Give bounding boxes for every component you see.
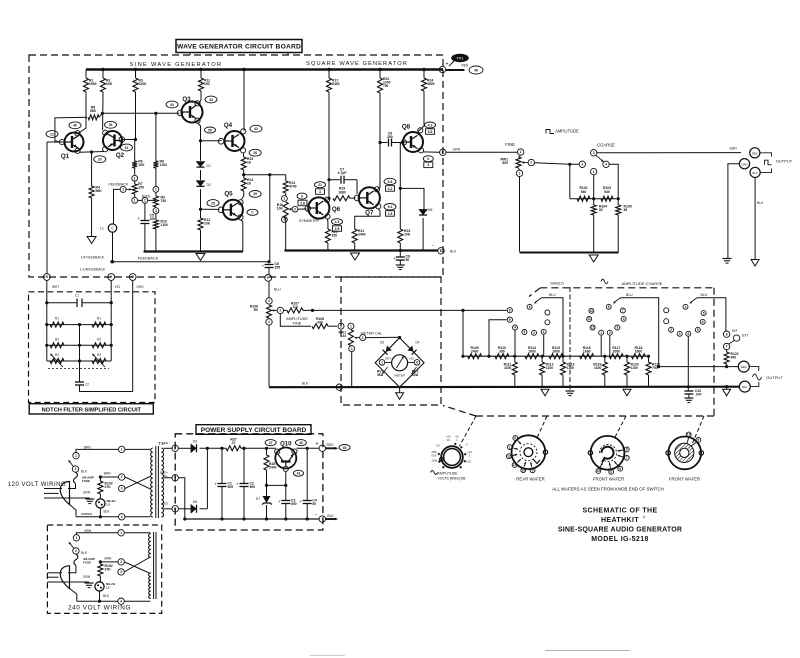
svg-text:3: 3 <box>593 151 595 155</box>
svg-text:10: 10 <box>597 469 601 473</box>
svg-text:4.2: 4.2 <box>388 187 393 191</box>
svg-text:−: − <box>315 512 318 518</box>
svg-text:100: 100 <box>150 217 156 221</box>
svg-text:12: 12 <box>507 454 511 458</box>
svg-text:43: 43 <box>170 103 174 107</box>
svg-text:50: 50 <box>208 128 212 132</box>
svg-text:-20B: -20B <box>431 459 437 463</box>
svg-text:F: F <box>267 276 269 280</box>
svg-text:2: 2 <box>279 309 281 313</box>
svg-text:RIBBED: RIBBED <box>81 512 93 516</box>
svg-text:9: 9 <box>532 469 534 473</box>
svg-text:SHIELD: SHIELD <box>550 282 564 286</box>
svg-text:2: 2 <box>75 549 77 553</box>
svg-text:AMPLITUDE: AMPLITUDE <box>286 317 308 321</box>
svg-text:Q8: Q8 <box>402 124 411 131</box>
svg-text:Q5: Q5 <box>224 191 233 198</box>
svg-text:2: 2 <box>362 336 364 340</box>
svg-text:BLK: BLK <box>81 551 88 555</box>
svg-text:1/4 FEEDBACK: 1/4 FEEDBACK <box>81 255 105 259</box>
svg-text:+: + <box>315 442 318 448</box>
svg-text:10: 10 <box>521 468 525 472</box>
svg-text:4.3: 4.3 <box>335 220 340 224</box>
svg-text:.1: .1 <box>455 438 458 442</box>
svg-text:ALL WAFERS AS SEEN FROM KNOB: ALL WAFERS AS SEEN FROM KNOB END OF SWIT… <box>552 487 664 492</box>
svg-text:2: 2 <box>530 161 532 165</box>
svg-text:4700: 4700 <box>289 185 297 189</box>
svg-text:C1: C1 <box>75 294 79 298</box>
svg-text:2400: 2400 <box>358 233 366 237</box>
svg-text:1: 1 <box>75 454 77 458</box>
svg-text:1600: 1600 <box>635 350 643 354</box>
svg-text:27K: 27K <box>105 568 112 572</box>
svg-text:EXT: EXT <box>742 334 749 338</box>
svg-text:600: 600 <box>502 161 508 165</box>
svg-text:TP1: TP1 <box>456 56 464 61</box>
svg-text:BLU: BLU <box>701 293 708 297</box>
svg-text:6: 6 <box>529 305 531 309</box>
svg-text:9: 9 <box>509 318 511 322</box>
svg-text:110: 110 <box>292 305 298 309</box>
svg-text:1: 1 <box>338 385 340 389</box>
svg-text:2: 2 <box>609 331 611 335</box>
svg-text:BLK: BLK <box>81 470 88 474</box>
svg-text:3: 3 <box>121 487 123 491</box>
svg-text:1: 1 <box>121 448 123 452</box>
svg-text:BLU: BLU <box>626 293 633 297</box>
svg-text:1-1/4FEEDBACK: 1-1/4FEEDBACK <box>80 268 106 272</box>
svg-text:SINE WAVE GENERATOR: SINE WAVE GENERATOR <box>130 62 223 68</box>
svg-text:4.3: 4.3 <box>428 123 433 127</box>
svg-text:10K: 10K <box>277 207 284 211</box>
svg-text:5: 5 <box>610 470 612 474</box>
svg-text:1100: 1100 <box>161 223 168 227</box>
svg-text:SCHEMATIC OF THE: SCHEMATIC OF THE <box>582 508 657 515</box>
svg-text:8: 8 <box>608 305 610 309</box>
svg-text:FRONT WAFER: FRONT WAFER <box>593 477 624 482</box>
svg-text:NOTCH FILTER SIMPLIFIED CIRCUI: NOTCH FILTER SIMPLIFIED CIRCUIT <box>42 407 142 413</box>
svg-text:FUSE: FUSE <box>83 561 91 565</box>
svg-text:10K: 10K <box>404 233 411 237</box>
svg-text:3.8: 3.8 <box>428 130 433 134</box>
svg-text:Q2: Q2 <box>116 152 125 159</box>
svg-text:6: 6 <box>619 467 621 471</box>
svg-text:.003: .003 <box>431 454 437 458</box>
svg-text:1100: 1100 <box>160 163 167 167</box>
svg-text:1: 1 <box>134 199 136 203</box>
svg-text:2: 2 <box>121 475 123 479</box>
svg-text:150: 150 <box>332 234 338 238</box>
svg-text:.047: .047 <box>695 393 702 397</box>
svg-text:1: 1 <box>134 176 136 180</box>
svg-text:1600: 1600 <box>583 350 591 354</box>
svg-text:500: 500 <box>250 485 256 489</box>
svg-text:VIO: VIO <box>409 357 415 361</box>
svg-text:3: 3 <box>155 209 157 213</box>
svg-text:56K: 56K <box>96 189 103 193</box>
svg-text:730: 730 <box>161 199 167 203</box>
svg-text:YEL: YEL <box>115 285 121 289</box>
svg-text:1: 1 <box>593 170 595 174</box>
svg-text:BLK: BLK <box>104 510 111 514</box>
svg-text:1: 1 <box>120 531 122 535</box>
svg-text:+: + <box>393 256 396 261</box>
svg-text:GRY: GRY <box>385 357 391 361</box>
svg-text:41: 41 <box>297 472 301 476</box>
svg-text:E: E <box>440 249 442 253</box>
svg-text:METER: METER <box>394 374 405 378</box>
svg-text:26: 26 <box>253 151 257 155</box>
svg-text:WHT: WHT <box>52 285 59 289</box>
svg-text:1100: 1100 <box>546 366 553 370</box>
svg-text:6: 6 <box>416 361 418 365</box>
svg-text:1: 1 <box>509 445 511 449</box>
svg-text:255: 255 <box>275 266 281 270</box>
svg-text:1680: 1680 <box>338 190 346 194</box>
svg-text:12: 12 <box>591 326 595 330</box>
svg-text:WAVE GENERATOR CIRCUIT BOARD: WAVE GENERATOR CIRCUIT BOARD <box>177 44 301 51</box>
svg-text:GRN: GRN <box>453 147 461 151</box>
svg-text:+: + <box>299 499 302 504</box>
svg-text:44: 44 <box>342 334 346 338</box>
svg-text:.02: .02 <box>446 438 450 442</box>
svg-text:1100: 1100 <box>567 366 574 370</box>
svg-text:+: + <box>236 482 239 487</box>
svg-text:D4: D4 <box>415 341 419 345</box>
svg-text:-30: -30 <box>435 444 440 448</box>
svg-text:BLK: BLK <box>302 382 309 386</box>
svg-text:3: 3 <box>268 299 270 303</box>
svg-text:3: 3 <box>524 330 526 334</box>
svg-text:10: 10 <box>590 309 594 313</box>
svg-text:1100: 1100 <box>504 366 511 370</box>
svg-text:5: 5 <box>697 328 699 332</box>
svg-text:0: 0 <box>427 157 429 161</box>
svg-text:50: 50 <box>406 258 410 262</box>
svg-text:1100: 1100 <box>631 366 638 370</box>
svg-text:R1: R1 <box>55 317 59 321</box>
svg-text:1: 1 <box>76 536 78 540</box>
svg-text:4: 4 <box>605 163 607 167</box>
svg-text:4: 4 <box>121 515 123 519</box>
svg-text:2: 2 <box>520 150 522 154</box>
svg-text:2: 2 <box>120 560 122 564</box>
svg-text:3: 3 <box>319 190 321 194</box>
svg-text:4600: 4600 <box>427 82 435 86</box>
svg-text:2: 2 <box>75 467 77 471</box>
svg-text:3: 3 <box>284 218 286 222</box>
svg-text:20: 20 <box>98 158 102 162</box>
svg-text:SINE-SQUARE AUDIO GENERATOR: SINE-SQUARE AUDIO GENERATOR <box>558 527 682 534</box>
svg-text:3: 3 <box>679 332 681 336</box>
svg-text:2400: 2400 <box>332 82 340 86</box>
svg-text:Q4: Q4 <box>224 122 233 129</box>
svg-text:43: 43 <box>209 98 213 102</box>
svg-text:5.8: 5.8 <box>388 180 393 184</box>
svg-text:21: 21 <box>50 132 54 136</box>
svg-text:2: 2 <box>294 207 296 211</box>
svg-text:2: 2 <box>144 199 146 203</box>
svg-text:D2: D2 <box>207 183 211 187</box>
svg-text:4: 4 <box>581 163 583 167</box>
svg-text:5.4: 5.4 <box>388 205 393 209</box>
svg-text:1: 1 <box>600 331 602 335</box>
svg-text:FINE: FINE <box>505 142 515 147</box>
svg-text:+: + <box>262 264 265 269</box>
svg-text:FEEDBACK: FEEDBACK <box>138 257 159 261</box>
svg-text:+: + <box>214 482 217 487</box>
svg-text:D3: D3 <box>193 440 197 444</box>
svg-text:BLK: BLK <box>327 514 334 518</box>
svg-text:RED: RED <box>162 502 169 506</box>
svg-text:R2: R2 <box>97 337 101 341</box>
svg-text:RED: RED <box>462 64 469 68</box>
svg-text:5K: 5K <box>254 308 259 312</box>
svg-text:52: 52 <box>599 208 603 212</box>
svg-text:4: 4 <box>685 305 687 309</box>
svg-text:GRN: GRN <box>729 147 737 151</box>
svg-text:3: 3 <box>120 570 122 574</box>
svg-text:ORG: ORG <box>137 285 145 289</box>
svg-text:45: 45 <box>343 446 347 450</box>
svg-text:METER CAL: METER CAL <box>361 331 383 335</box>
svg-text:Q7: Q7 <box>365 210 374 217</box>
svg-text:540: 540 <box>604 190 610 194</box>
svg-text:56K: 56K <box>90 109 97 113</box>
svg-text:16: 16 <box>247 182 251 186</box>
svg-text:L1: L1 <box>100 227 104 231</box>
svg-text:540: 540 <box>581 190 587 194</box>
svg-text:5: 5 <box>703 311 705 315</box>
svg-text:50: 50 <box>312 502 316 506</box>
svg-text:430: 430 <box>317 321 323 325</box>
svg-text:9: 9 <box>626 448 628 452</box>
svg-text:7: 7 <box>626 456 628 460</box>
svg-text:Q6: Q6 <box>332 206 341 213</box>
svg-text:2.8: 2.8 <box>300 201 305 205</box>
svg-text:Q3: Q3 <box>182 96 191 103</box>
svg-text:BLK: BLK <box>742 385 747 389</box>
svg-text:1: 1 <box>350 324 352 328</box>
svg-text:9: 9 <box>301 194 303 198</box>
svg-text:500: 500 <box>291 502 297 506</box>
svg-text:2: 2 <box>533 331 535 335</box>
svg-text:RED: RED <box>741 365 747 369</box>
svg-text:+: + <box>278 499 281 504</box>
svg-text:1: 1 <box>284 197 286 201</box>
svg-text:3: 3 <box>616 326 618 330</box>
svg-text:10K: 10K <box>106 82 113 86</box>
svg-text:2: 2 <box>122 188 124 192</box>
svg-text:1: 1 <box>381 361 383 365</box>
svg-text:4: 4 <box>514 326 516 330</box>
svg-text:6: 6 <box>514 436 516 440</box>
svg-text:7: 7 <box>726 345 728 349</box>
svg-text:240 VOLT WIRING: 240 VOLT WIRING <box>68 605 131 612</box>
svg-text:Q1: Q1 <box>61 153 70 160</box>
svg-text:10A: 10A <box>412 373 419 377</box>
svg-text:11: 11 <box>513 463 517 467</box>
svg-text:D6: D6 <box>193 500 197 504</box>
svg-text:MODEL IG-5218: MODEL IG-5218 <box>591 536 649 543</box>
svg-text:−: − <box>432 243 435 248</box>
svg-text:C2: C2 <box>85 383 89 387</box>
svg-text:1: 1 <box>543 330 545 334</box>
svg-text:56: 56 <box>624 208 628 212</box>
svg-text:D8: D8 <box>428 208 432 212</box>
svg-text:42: 42 <box>254 127 258 131</box>
svg-text:1500: 1500 <box>89 82 97 86</box>
svg-text:3: 3 <box>427 163 429 167</box>
svg-text:D5: D5 <box>380 341 384 345</box>
svg-text:+: + <box>137 216 140 221</box>
svg-text:4: 4 <box>623 317 625 321</box>
svg-text:GRN: GRN <box>742 162 748 166</box>
svg-text:D7: D7 <box>256 497 260 501</box>
svg-text:GRN: GRN <box>83 575 91 579</box>
svg-text:COARSE: COARSE <box>597 143 615 148</box>
svg-text:SQUARE WAVE GENERATOR: SQUARE WAVE GENERATOR <box>306 61 408 67</box>
svg-text:11: 11 <box>587 317 591 321</box>
svg-text:BLK: BLK <box>450 250 457 254</box>
svg-text:10: 10 <box>687 433 691 437</box>
svg-text:150: 150 <box>204 82 210 86</box>
svg-text:R2: R2 <box>55 337 59 341</box>
svg-text:2: 2 <box>670 328 672 332</box>
svg-text:R1: R1 <box>97 317 101 321</box>
svg-text:AMPLITUDE: AMPLITUDE <box>437 472 458 476</box>
svg-text:10K: 10K <box>138 163 145 167</box>
svg-text:26: 26 <box>109 123 113 127</box>
svg-text:R3: R3 <box>97 353 101 357</box>
svg-text:7W: 7W <box>383 84 389 88</box>
svg-text:OUTPUT: OUTPUT <box>766 375 783 380</box>
svg-text:Q10: Q10 <box>280 441 292 447</box>
svg-text:3: 3 <box>351 347 353 351</box>
svg-text:BLU: BLU <box>549 293 556 297</box>
svg-text:4.7pF: 4.7pF <box>338 171 347 175</box>
svg-text:43: 43 <box>299 441 303 445</box>
svg-text:FEEDBACK: FEEDBACK <box>109 182 129 186</box>
svg-text:29: 29 <box>253 192 257 196</box>
svg-text:4: 4 <box>687 332 689 336</box>
svg-text:BLK: BLK <box>757 201 764 205</box>
svg-text:45: 45 <box>474 68 478 72</box>
svg-text:OUTPUT: OUTPUT <box>776 159 793 164</box>
svg-text:5: 5 <box>340 324 342 328</box>
svg-text:25: 25 <box>211 201 215 205</box>
svg-text:HEATHKIT: HEATHKIT <box>601 517 639 524</box>
svg-text:220K: 220K <box>139 82 148 86</box>
svg-text:L2: L2 <box>107 503 111 507</box>
svg-text:1: 1 <box>268 320 270 324</box>
svg-text:1600: 1600 <box>552 350 560 354</box>
svg-text:10K: 10K <box>204 222 211 226</box>
svg-text:AMPLITUDE COARSE: AMPLITUDE COARSE <box>622 281 663 286</box>
svg-text:+: + <box>445 62 448 68</box>
svg-text:47: 47 <box>232 441 236 445</box>
svg-text:BLK: BLK <box>103 594 110 598</box>
svg-text:9: 9 <box>698 438 700 442</box>
svg-text:1600: 1600 <box>528 350 536 354</box>
svg-text:4: 4 <box>120 599 122 603</box>
svg-text:BLK: BLK <box>753 171 758 175</box>
svg-text:21: 21 <box>125 146 129 150</box>
svg-text:390: 390 <box>499 350 505 354</box>
svg-text:2400: 2400 <box>269 466 277 470</box>
svg-text:7: 7 <box>622 309 624 313</box>
svg-text:21: 21 <box>318 183 322 187</box>
svg-text:1100: 1100 <box>594 366 601 370</box>
svg-text:FUSE: FUSE <box>82 479 90 483</box>
svg-text:8: 8 <box>509 308 511 312</box>
svg-text:500: 500 <box>228 485 234 489</box>
svg-text:GRN: GRN <box>83 491 91 495</box>
svg-text:250: 250 <box>387 135 393 139</box>
svg-text:2400: 2400 <box>471 350 479 354</box>
svg-text:40: 40 <box>73 124 77 128</box>
svg-text:1: 1 <box>519 172 521 176</box>
svg-text:VOLTS [RMS]-DB: VOLTS [RMS]-DB <box>438 476 467 480</box>
svg-text:AMPLITUDE: AMPLITUDE <box>555 129 579 134</box>
svg-text:750: 750 <box>652 366 658 370</box>
svg-text:1: 1 <box>155 188 157 192</box>
svg-text:FRONT WAFER: FRONT WAFER <box>669 477 700 482</box>
svg-text:YEL: YEL <box>162 474 168 478</box>
svg-text:RED: RED <box>752 151 758 155</box>
svg-text:SYMMETRY: SYMMETRY <box>299 219 320 223</box>
svg-text:D1: D1 <box>207 164 211 168</box>
svg-text:R3: R3 <box>55 353 59 357</box>
svg-text:1600: 1600 <box>613 350 621 354</box>
svg-text:RED: RED <box>162 441 169 445</box>
svg-text:FINE: FINE <box>293 322 302 326</box>
svg-text:120 VOLT WIRING: 120 VOLT WIRING <box>8 482 66 488</box>
svg-text:47: 47 <box>269 441 273 445</box>
svg-text:27K: 27K <box>105 485 112 489</box>
svg-text:BRN: BRN <box>104 472 111 476</box>
svg-text:L2: L2 <box>106 586 110 590</box>
svg-text:390: 390 <box>731 356 737 360</box>
svg-text:INT: INT <box>732 329 737 333</box>
svg-text:150: 150 <box>138 185 144 189</box>
svg-text:BRN: BRN <box>105 557 112 561</box>
svg-text:REAR WAFER: REAR WAFER <box>516 477 545 482</box>
svg-text:BLU: BLU <box>274 288 281 292</box>
svg-text:RED: RED <box>327 443 335 447</box>
svg-text:®: ® <box>643 516 646 520</box>
svg-text:6: 6 <box>702 320 704 324</box>
svg-text:+120: +120 <box>465 460 472 464</box>
svg-text:8: 8 <box>726 332 728 336</box>
svg-text:2.8: 2.8 <box>388 212 393 216</box>
svg-text:18: 18 <box>247 161 251 165</box>
